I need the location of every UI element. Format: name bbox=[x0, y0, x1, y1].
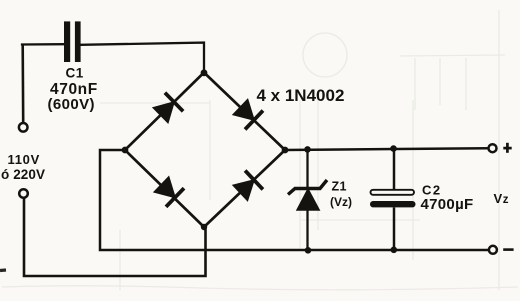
zener Z1 bbox=[288, 180, 327, 211]
label: mains 110V bbox=[8, 152, 40, 167]
label: Z1 reference bbox=[332, 179, 347, 193]
node: Z1 bottom on negative rail bbox=[305, 247, 312, 254]
label: C2 reference bbox=[422, 183, 442, 198]
svg-text:(Vz): (Vz) bbox=[330, 195, 352, 209]
wire: negative rail from bridge left node bbox=[100, 150, 489, 250]
node: bridge bottom junction bbox=[201, 224, 207, 230]
svg-text:4700µF: 4700µF bbox=[421, 196, 474, 213]
label: bridge diodes 4 x 1N4002 bbox=[257, 86, 345, 105]
svg-text:Z1: Z1 bbox=[332, 179, 347, 193]
svg-text:Vz: Vz bbox=[494, 191, 510, 206]
svg-text:ó 220V: ó 220V bbox=[1, 167, 45, 182]
terminal: output negative bbox=[489, 246, 497, 254]
diode D4 (bottom-right of bridge) bbox=[231, 169, 264, 202]
label: output minus sign bbox=[503, 248, 513, 251]
wire: top rail from C1 to bridge bbox=[81, 43, 205, 73]
wire: AC2 terminal drop to bottom run bbox=[24, 198, 206, 276]
wire: bridge edge left node to bottom node bbox=[125, 150, 204, 227]
node: bridge top junction bbox=[201, 69, 208, 76]
label: mains ó 220V bbox=[1, 167, 45, 182]
diode D3 (bottom-left of bridge) bbox=[152, 175, 185, 208]
node: bridge right junction bbox=[282, 147, 289, 154]
terminal: AC input upper bbox=[19, 123, 28, 132]
svg-text:(600V): (600V) bbox=[48, 96, 95, 113]
terminal: AC input lower bbox=[19, 189, 28, 198]
node: Z1 top on positive rail bbox=[304, 146, 311, 153]
terminal: output positive bbox=[489, 144, 497, 152]
wire: capacitor C2 branch bbox=[393, 148, 396, 250]
wire: top rail left of C1 bbox=[22, 44, 65, 45]
label: Z1 value (Vz) bbox=[330, 195, 352, 209]
node: C2 top on positive rail bbox=[390, 145, 397, 152]
label: output voltage Vz bbox=[494, 191, 510, 206]
scan artifact dark dash at left edge bbox=[0, 268, 6, 272]
capacitor C1 bbox=[64, 21, 81, 62]
wire: AC1 terminal riser bbox=[21, 45, 24, 124]
svg-text:C1: C1 bbox=[66, 65, 84, 80]
diode D1 (top-left of bridge) bbox=[151, 92, 184, 125]
capacitor C2 bbox=[370, 190, 416, 208]
svg-text:110V: 110V bbox=[8, 152, 40, 167]
label: output plus sign bbox=[503, 143, 511, 153]
wire: bridge edge top node to right node bbox=[204, 73, 285, 151]
svg-text:4 x 1N4002: 4 x 1N4002 bbox=[257, 86, 345, 105]
label: C1 rating (600V) bbox=[48, 96, 95, 113]
wire: zener Z1 branch bbox=[306, 149, 308, 250]
label: C2 value 4700uF bbox=[421, 196, 474, 213]
label: C1 value 470nF bbox=[50, 81, 98, 98]
wire: bridge edge left node to top node bbox=[125, 73, 204, 151]
wire: bridge edge bottom node to right node bbox=[204, 150, 285, 227]
node: bridge left junction bbox=[122, 147, 129, 154]
node: C2 bottom on negative rail bbox=[391, 247, 398, 254]
label: C1 reference bbox=[66, 65, 84, 80]
diode D2 (top-right of bridge) bbox=[231, 97, 264, 130]
wire: positive rail from bridge right node bbox=[285, 148, 489, 150]
